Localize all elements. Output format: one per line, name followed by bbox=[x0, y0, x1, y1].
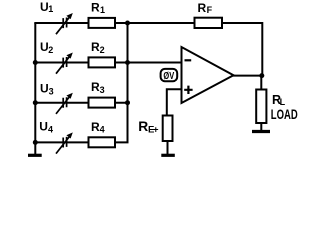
svg-text:ØV: ØV bbox=[163, 71, 174, 82]
wire non-inverting input to RE+ bbox=[167, 89, 182, 115]
wire row 4 (U4-R4) bbox=[34, 141, 128, 143]
ground (RE+) bbox=[161, 154, 175, 157]
svg-text:LOAD: LOAD bbox=[271, 107, 298, 122]
node row1/summing-bus junction bbox=[125, 21, 130, 26]
wire row 3 (U3-R3) bbox=[34, 102, 128, 104]
source U2 variable symbol bbox=[56, 53, 73, 74]
resistor R2 bbox=[89, 57, 116, 67]
svg-text:1: 1 bbox=[48, 4, 53, 14]
label R2 bbox=[91, 40, 105, 55]
ground (left input bus) bbox=[28, 154, 42, 157]
label RE+ bbox=[138, 119, 159, 136]
label R4 bbox=[91, 120, 105, 135]
node row4/left-bus junction bbox=[33, 140, 38, 145]
node row3/summing-bus junction bbox=[125, 100, 130, 105]
label U2 bbox=[40, 40, 53, 55]
resistor RE+ bbox=[163, 116, 173, 142]
wire RF right drop to output node bbox=[261, 22, 263, 76]
label RF bbox=[198, 1, 213, 15]
svg-text:3: 3 bbox=[100, 85, 105, 95]
wire RE+ bottom to ground bbox=[167, 141, 169, 156]
svg-text:F: F bbox=[207, 5, 213, 15]
wire op-amp output bbox=[233, 75, 262, 77]
svg-text:R: R bbox=[198, 1, 207, 15]
resistor R1 bbox=[89, 18, 116, 28]
svg-text:4: 4 bbox=[100, 125, 105, 135]
svg-text:R: R bbox=[91, 0, 100, 14]
svg-text:3: 3 bbox=[49, 86, 54, 96]
node output junction bbox=[259, 73, 264, 78]
svg-text:U: U bbox=[40, 81, 49, 95]
label R3 bbox=[91, 80, 105, 95]
resistor R3 bbox=[89, 98, 116, 108]
node row3/left-bus junction bbox=[33, 100, 38, 105]
wire row 1 (U1-R1 to RF corner) bbox=[34, 22, 262, 24]
label RL bbox=[272, 93, 286, 107]
node row2/summing-bus junction bbox=[125, 60, 130, 65]
node row2/left-bus junction bbox=[33, 60, 38, 65]
source U1 variable symbol bbox=[56, 13, 73, 34]
svg-text:E+: E+ bbox=[148, 125, 159, 136]
resistor R4 bbox=[89, 137, 116, 147]
resistor RL bbox=[256, 90, 266, 124]
resistor RF bbox=[195, 18, 223, 28]
source U3 variable symbol bbox=[56, 93, 73, 114]
ground (RL) bbox=[252, 130, 270, 133]
label U1 bbox=[40, 0, 53, 14]
svg-text:4: 4 bbox=[48, 124, 53, 134]
wire RL bottom to ground bbox=[260, 123, 262, 132]
op-amp bbox=[182, 47, 234, 103]
svg-text:U: U bbox=[39, 120, 48, 134]
svg-text:2: 2 bbox=[48, 45, 53, 55]
source U4 variable symbol bbox=[56, 132, 73, 153]
label U4 bbox=[39, 120, 53, 135]
wire left input bus bbox=[34, 23, 36, 155]
label R1 bbox=[91, 0, 105, 15]
node 0V badge (virtual ground label) bbox=[161, 69, 178, 82]
svg-text:R: R bbox=[138, 119, 148, 134]
wire output node down to RL bbox=[260, 76, 262, 90]
label U3 bbox=[40, 81, 54, 96]
svg-text:2: 2 bbox=[100, 45, 105, 55]
svg-text:1: 1 bbox=[100, 5, 105, 15]
svg-text:L: L bbox=[280, 97, 286, 107]
wire row 2 (U2-R2 to op-amp inverting input) bbox=[34, 62, 181, 64]
wire summing bus (right vertical) bbox=[127, 23, 129, 142]
